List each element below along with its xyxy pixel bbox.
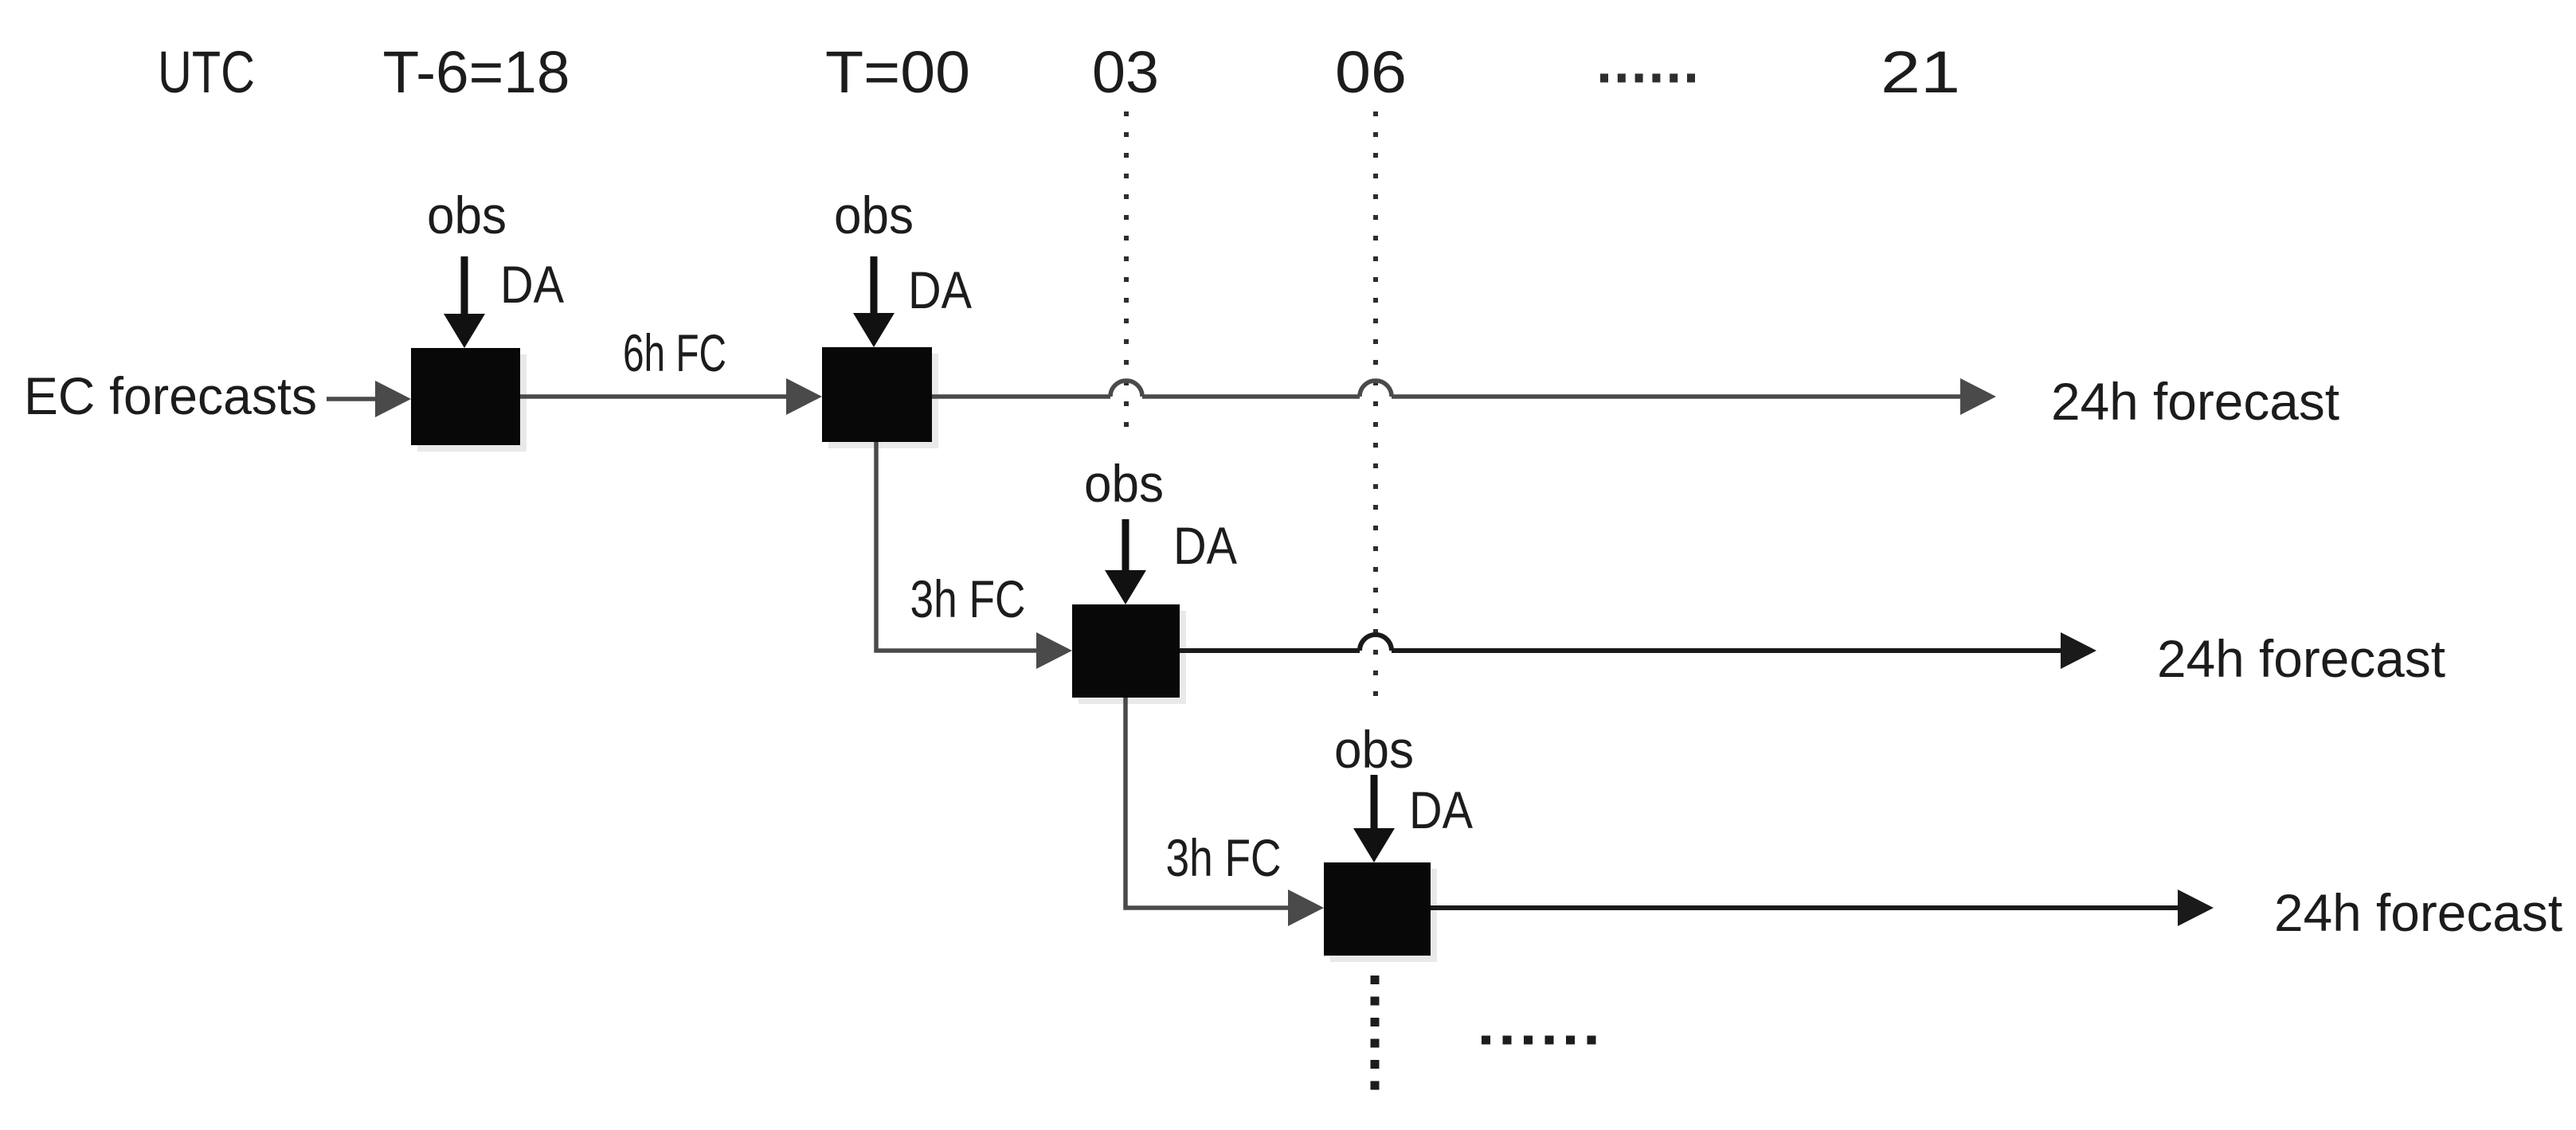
obs DA arrow C — [1105, 519, 1146, 604]
dotted continuation below box4 — [1371, 976, 1380, 1093]
svg-text:DA: DA — [1409, 780, 1473, 839]
obs DA arrow A — [444, 256, 485, 348]
wire row1 arrowhead — [1960, 378, 1996, 415]
wire 6h FC from box1 to box2 — [520, 378, 822, 415]
svg-text:21: 21 — [1881, 39, 1960, 105]
svg-text:3h FC: 3h FC — [1166, 828, 1282, 887]
svg-text:obs: obs — [427, 186, 507, 244]
svg-text:T-6=18: T-6=18 — [383, 39, 570, 105]
wire row2 arrowhead — [2061, 632, 2096, 669]
obs DA arrow D — [1353, 775, 1395, 862]
box DA cycle 1 (T-6=18) — [417, 354, 527, 452]
svg-text:06: 06 — [1335, 39, 1407, 105]
bottom ellipsis dots — [1482, 1036, 1597, 1045]
box DA cycle 2 (T=00) — [828, 354, 938, 448]
wire row2 24h forecast line with hop — [1180, 635, 2062, 651]
wire EC forecasts arrow — [327, 381, 411, 417]
svg-text:T=00: T=00 — [825, 39, 970, 105]
svg-text:DA: DA — [1173, 516, 1237, 575]
svg-text:EC forecasts: EC forecasts — [24, 366, 317, 425]
wire row1 24h forecast line with hops — [932, 381, 1962, 397]
obs DA arrow B — [853, 256, 895, 347]
svg-text:DA: DA — [908, 260, 972, 319]
box DA cycle 4 (06) — [1330, 869, 1437, 962]
svg-text:obs: obs — [834, 186, 914, 244]
svg-text:6h FC: 6h FC — [623, 323, 726, 382]
svg-text:obs: obs — [1084, 454, 1164, 513]
svg-text:3h FC: 3h FC — [910, 569, 1026, 628]
dotted timeline 03 — [1124, 111, 1129, 434]
wire connector box2 down to box3 (3h FC) — [876, 442, 1072, 669]
wire connector box3 down to box4 (3h FC) — [1126, 698, 1324, 926]
top ellipsis dots — [1600, 74, 1695, 83]
svg-text:03: 03 — [1092, 39, 1159, 105]
dotted timeline 06 — [1373, 111, 1378, 701]
box DA cycle 3 (03) — [1079, 611, 1186, 704]
svg-text:DA: DA — [500, 255, 564, 314]
svg-text:24h forecast: 24h forecast — [2051, 372, 2339, 431]
wire row3 arrowhead — [2178, 890, 2214, 926]
svg-text:UTC: UTC — [158, 39, 255, 105]
svg-text:24h forecast: 24h forecast — [2157, 629, 2445, 688]
svg-text:24h forecast: 24h forecast — [2274, 883, 2562, 942]
wire row3 24h forecast line — [1431, 905, 2179, 910]
svg-text:obs: obs — [1334, 720, 1414, 779]
